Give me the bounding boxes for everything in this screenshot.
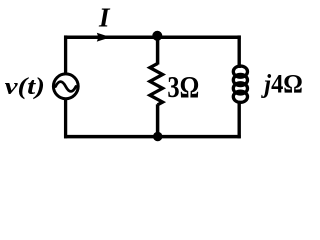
svg-text:I: I bbox=[98, 2, 111, 32]
sine wave inside source bbox=[56, 82, 76, 92]
wire right branch lower bbox=[237, 101, 240, 139]
svg-text:v(t): v(t) bbox=[5, 72, 45, 99]
source v(t) bbox=[53, 74, 78, 99]
inductor L coil loop 1 bbox=[233, 66, 247, 77]
wire top bbox=[64, 35, 241, 39]
inductor L coil loop 2 bbox=[233, 74, 247, 85]
resistor R zigzag bbox=[150, 64, 163, 105]
wire left branch lower bbox=[64, 99, 67, 138]
svg-text:3Ω: 3Ω bbox=[167, 70, 199, 104]
inductor L coil loop 4 bbox=[233, 91, 247, 102]
inductor L coil loop 3 bbox=[233, 83, 247, 94]
current arrow head bbox=[97, 33, 111, 42]
wire right branch upper bbox=[237, 35, 240, 68]
svg-text:j4Ω: j4Ω bbox=[260, 71, 302, 99]
wire middle branch upper bbox=[156, 35, 160, 64]
wire left branch upper bbox=[64, 35, 67, 74]
wire middle branch lower bbox=[156, 104, 160, 138]
wire bottom bbox=[64, 135, 241, 139]
node bottom junction bbox=[153, 132, 162, 141]
node top junction bbox=[152, 31, 162, 41]
